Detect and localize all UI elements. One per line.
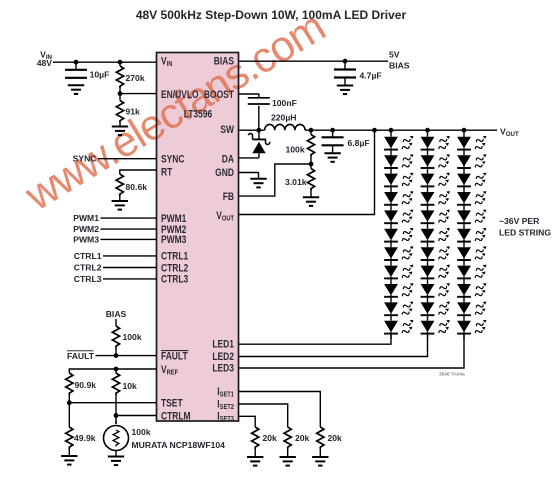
ground under R9 xyxy=(303,197,319,206)
svg-text:3.01k: 3.01k xyxy=(285,177,307,187)
wire 100k bias bottom lead xyxy=(115,420,117,424)
junction dots xyxy=(74,60,79,65)
ground under GND pin xyxy=(250,179,266,188)
wire BIAS pullup xyxy=(115,319,117,326)
svg-text:PWM1: PWM1 xyxy=(73,213,99,223)
wire TSET xyxy=(69,402,156,404)
svg-text:LT3596: LT3596 xyxy=(184,109,213,121)
svg-text:LED3: LED3 xyxy=(212,362,234,374)
resistor R2 91k xyxy=(116,101,123,123)
wire GND xyxy=(239,173,259,179)
wire 20k bottoms xyxy=(319,449,321,457)
svg-text:CTRL1: CTRL1 xyxy=(161,251,189,263)
ground under C4 xyxy=(324,153,340,162)
wire diode leads xyxy=(258,153,260,158)
wire 270k leads xyxy=(119,62,121,66)
ground under R7 xyxy=(61,456,77,465)
wire SW rail after inductor xyxy=(305,129,497,131)
svg-text:100k: 100k xyxy=(132,427,151,437)
wire VREF xyxy=(69,369,156,373)
svg-text:MURATA NCP18WF104: MURATA NCP18WF104 xyxy=(132,440,226,450)
capacitor C2 4.7uF xyxy=(334,70,356,78)
wire EN/UVLO xyxy=(120,93,157,95)
ground under R10 xyxy=(247,457,263,466)
capacitor C4 6.8uF xyxy=(322,137,344,145)
wire 6.8uF lead xyxy=(332,130,334,137)
diode DA schottky xyxy=(248,130,269,153)
outside labels left xyxy=(37,50,552,362)
IC U1 LT3596 body fill xyxy=(157,53,239,422)
ground under R3 xyxy=(112,201,128,210)
wire SYNC xyxy=(98,158,157,160)
svg-text:SYNC: SYNC xyxy=(161,154,185,166)
svg-text:DA: DA xyxy=(222,154,234,166)
svg-text:BIAS: BIAS xyxy=(214,56,235,68)
svg-text:CTRL3: CTRL3 xyxy=(161,274,188,286)
wire 49.9k xyxy=(68,403,70,427)
resistor R8 100k fb top xyxy=(307,135,314,157)
svg-text:RT: RT xyxy=(161,166,172,178)
IC U1 LT3596 border xyxy=(157,53,239,422)
wire VIN cap lead xyxy=(75,62,77,70)
svg-text:CTRL1: CTRL1 xyxy=(74,251,102,261)
svg-text:90.9k: 90.9k xyxy=(75,380,97,390)
IC pin labels xyxy=(161,56,235,424)
wire LED1 xyxy=(239,334,392,344)
svg-text:5V: 5V xyxy=(389,50,400,60)
svg-text:270k: 270k xyxy=(126,73,145,83)
svg-text:CTRLM: CTRLM xyxy=(161,410,191,422)
svg-text:FB: FB xyxy=(223,191,234,203)
svg-text:BIAS: BIAS xyxy=(389,61,410,71)
wire 90.9k bottom xyxy=(68,395,70,403)
thermistor RT1 100k MURATA xyxy=(104,426,129,457)
svg-text:48V: 48V xyxy=(37,58,53,68)
svg-text:VOUT: VOUT xyxy=(500,127,519,139)
wire VIN to IC xyxy=(53,61,157,63)
LED string 2 xyxy=(421,135,452,339)
wire DA xyxy=(239,157,260,159)
wire 100nF bottom lead xyxy=(258,106,260,130)
svg-text:LED2: LED2 xyxy=(212,351,234,363)
capacitor C3 100nF xyxy=(248,98,270,104)
wire PWM3 xyxy=(101,238,157,240)
wire string top leads xyxy=(390,130,392,137)
wire FAULT xyxy=(96,355,157,357)
wire 4.7uF lead xyxy=(344,61,346,69)
resistor R5 90.9k xyxy=(66,373,73,395)
wire ISET3 xyxy=(239,416,256,427)
wire VOUT pin xyxy=(239,130,375,214)
svg-text:~36V PER: ~36V PER xyxy=(499,216,540,226)
svg-text:FAULT: FAULT xyxy=(67,351,95,361)
svg-text:GND: GND xyxy=(215,167,234,179)
svg-text:LED1: LED1 xyxy=(212,339,234,351)
wire 10k top xyxy=(115,369,117,373)
ground under C2 xyxy=(337,86,353,95)
resistor R11 20k xyxy=(284,427,291,449)
wire BIAS out xyxy=(239,60,389,62)
wire 100k fb leads xyxy=(310,130,312,134)
wire LED3 xyxy=(239,334,465,368)
ground under R2 xyxy=(112,127,128,136)
svg-text:100k: 100k xyxy=(286,145,305,155)
wire CTRL1 xyxy=(103,255,157,257)
inductor L1 220uH xyxy=(265,124,305,130)
resistor R12 20k xyxy=(317,427,324,449)
wire PWM1 xyxy=(101,217,157,219)
svg-text:SW: SW xyxy=(220,124,234,136)
ground under R11 xyxy=(280,457,296,466)
wire FB xyxy=(239,164,312,196)
svg-text:49.9k: 49.9k xyxy=(74,433,96,443)
svg-text:80.6k: 80.6k xyxy=(126,182,148,192)
resistor R4 100k bias pullup xyxy=(112,326,119,348)
svg-text:91k: 91k xyxy=(126,107,141,117)
svg-text:4.7µF: 4.7µF xyxy=(360,71,382,81)
svg-text:SYNC: SYNC xyxy=(73,154,97,164)
wire ISET1 xyxy=(239,392,321,428)
component value labels xyxy=(74,70,382,451)
wire CTRL2 xyxy=(103,267,157,269)
ground under thermistor xyxy=(108,457,124,466)
resistor R6 10k xyxy=(112,373,119,395)
svg-text:TSET: TSET xyxy=(161,398,183,410)
svg-text:EN/UVLO: EN/UVLO xyxy=(161,89,199,101)
wire PWM2 xyxy=(101,228,157,230)
resistor R3 80.6k xyxy=(116,174,123,196)
svg-text:100nF: 100nF xyxy=(272,98,297,108)
svg-text:100k: 100k xyxy=(123,332,142,342)
wire SW xyxy=(239,129,265,131)
wire CTRL3 xyxy=(103,278,157,280)
svg-text:PWM2: PWM2 xyxy=(73,224,99,234)
svg-text:20k: 20k xyxy=(328,433,343,443)
wire CTRLM xyxy=(116,415,157,417)
svg-text:20k: 20k xyxy=(295,433,310,443)
svg-text:PWM3: PWM3 xyxy=(73,234,99,244)
svg-text:LED STRING: LED STRING xyxy=(499,228,551,238)
LED string 3 xyxy=(457,135,488,339)
resistor R7 49.9k xyxy=(66,427,73,449)
capacitor C1 10uF xyxy=(65,70,87,78)
wire ISET2 xyxy=(239,404,288,427)
wire 10k bottom to CTRLM node xyxy=(115,395,117,424)
resistor R9 3.01k xyxy=(307,169,314,191)
svg-text:FAULT: FAULT xyxy=(161,351,188,363)
svg-text:BOOST: BOOST xyxy=(204,89,234,101)
svg-text:6.8µF: 6.8µF xyxy=(348,138,370,148)
svg-text:10µF: 10µF xyxy=(90,70,110,80)
wire 91k leads xyxy=(119,94,121,101)
ground under R12 xyxy=(312,457,328,466)
resistor R1 270k xyxy=(116,66,123,88)
wire 80.6k bottom xyxy=(119,196,121,201)
svg-text:48V 500kHz Step-Down 10W, 100m: 48V 500kHz Step-Down 10W, 100mA LED Driv… xyxy=(136,8,407,22)
ground under C1 xyxy=(68,85,84,94)
svg-text:PWM3: PWM3 xyxy=(161,234,186,246)
LED string 1 xyxy=(384,135,415,339)
wire 3.01k leads xyxy=(310,164,312,169)
svg-text:BIAS: BIAS xyxy=(106,309,127,319)
svg-text:3696 TA04a: 3696 TA04a xyxy=(439,372,465,378)
wire BOOST xyxy=(239,94,259,98)
svg-text:20k: 20k xyxy=(263,433,278,443)
svg-text:CTRL2: CTRL2 xyxy=(74,263,102,273)
svg-text:10k: 10k xyxy=(123,381,138,391)
wire 100k to FAULT xyxy=(115,348,117,356)
svg-text:220µH: 220µH xyxy=(271,113,297,123)
svg-text:CTRL2: CTRL2 xyxy=(161,262,188,274)
wire LED2 xyxy=(239,334,428,357)
svg-text:CTRL3: CTRL3 xyxy=(74,274,102,284)
wire RT xyxy=(120,170,157,174)
resistor R10 20k xyxy=(252,427,259,449)
